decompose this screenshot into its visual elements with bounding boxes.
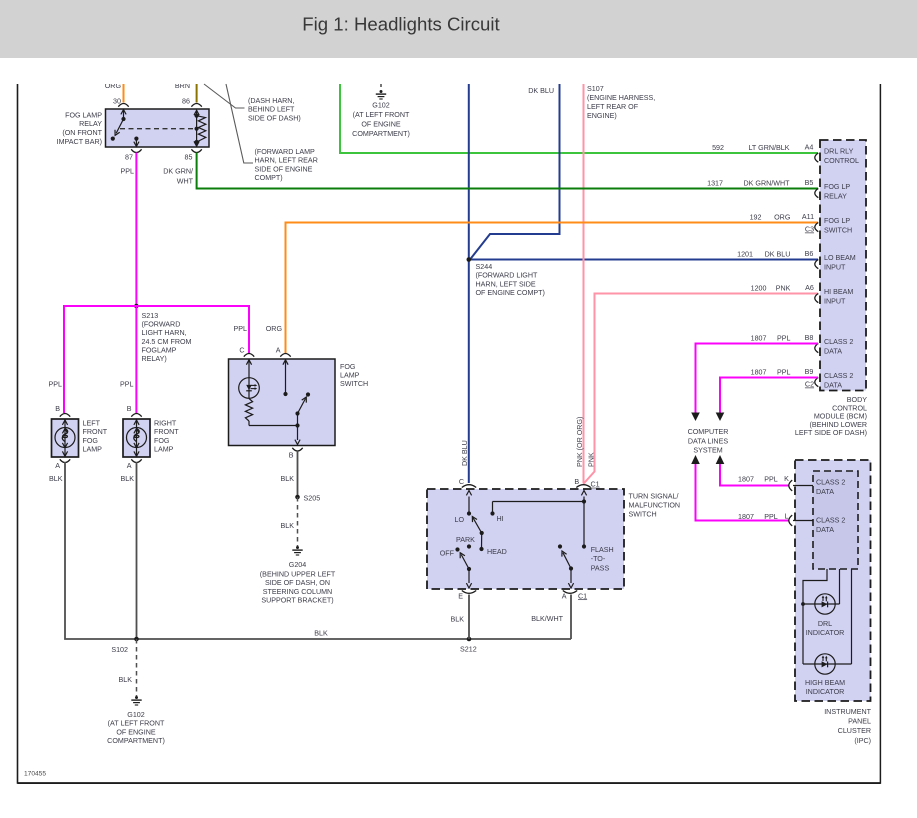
wire 192 ORG from BCM A11 to fog lamp switch pin A bbox=[286, 223, 819, 354]
svg-text:(BEHIND UPPER LEFT: (BEHIND UPPER LEFT bbox=[260, 571, 336, 579]
relay armature dashed link bbox=[120, 128, 196, 130]
figure number 170455 bbox=[24, 771, 46, 778]
BCM LO BEAM INPUT label bbox=[824, 254, 856, 272]
svg-text:SUPPORT BRACKET): SUPPORT BRACKET) bbox=[261, 596, 333, 604]
BCM pin A4 bbox=[815, 153, 819, 162]
svg-text:FOGLAMP: FOGLAMP bbox=[142, 346, 177, 354]
svg-text:(BEHIND LOWER: (BEHIND LOWER bbox=[809, 421, 867, 429]
BCM pin A6 bbox=[815, 294, 819, 303]
svg-text:85: 85 bbox=[185, 154, 193, 162]
svg-text:DATA: DATA bbox=[816, 526, 834, 534]
BCM pin B6 bbox=[815, 260, 819, 269]
labels for wire 1807 B8 bbox=[751, 334, 814, 343]
label FOG LAMP SWITCH bbox=[340, 363, 368, 388]
svg-text:DK BLU: DK BLU bbox=[461, 440, 469, 466]
svg-text:HIGH BEAM: HIGH BEAM bbox=[805, 679, 845, 687]
svg-text:ORG: ORG bbox=[266, 325, 283, 333]
svg-text:PASS: PASS bbox=[591, 564, 610, 572]
HEAD contact bbox=[479, 547, 506, 556]
svg-text:HEAD: HEAD bbox=[487, 548, 507, 556]
svg-text:SIDE OF DASH, ON: SIDE OF DASH, ON bbox=[265, 579, 330, 587]
wire BLK dashed to ground G204 bbox=[297, 497, 299, 546]
left front fog lamp pin A bbox=[55, 459, 70, 470]
relay pin 86 bbox=[182, 98, 202, 107]
wire ORG into relay pin 30 bbox=[123, 84, 125, 103]
label PPL under pin 87 bbox=[121, 168, 135, 176]
label PPL at right fog lamp bbox=[120, 381, 134, 389]
svg-text:G102: G102 bbox=[372, 102, 389, 110]
svg-text:A11: A11 bbox=[802, 213, 814, 221]
svg-text:1807: 1807 bbox=[738, 513, 754, 521]
wire BRN into relay pin 86 bbox=[196, 84, 198, 103]
switch lamp resistor bbox=[245, 399, 252, 426]
svg-text:IMPACT BAR): IMPACT BAR) bbox=[57, 138, 102, 146]
label RIGHT FRONT FOG LAMP bbox=[154, 420, 179, 454]
relay pin 87 bbox=[125, 149, 142, 161]
svg-text:BLK: BLK bbox=[49, 475, 63, 483]
svg-text:CLASS 2: CLASS 2 bbox=[824, 372, 853, 380]
HI contact bbox=[490, 502, 584, 524]
svg-text:C3: C3 bbox=[805, 226, 814, 234]
svg-text:STEERING COLUMN: STEERING COLUMN bbox=[263, 588, 332, 596]
svg-text:MODULE (BCM): MODULE (BCM) bbox=[814, 413, 867, 421]
svg-text:S205: S205 bbox=[304, 495, 321, 503]
svg-text:LAMP: LAMP bbox=[83, 446, 103, 454]
svg-text:BLK: BLK bbox=[121, 475, 135, 483]
label PPL at left fog lamp bbox=[49, 381, 63, 389]
note (DASH HARN, BEHIND LEFT SIDE OF DASH) bbox=[248, 97, 301, 122]
headlight switch LO contact bbox=[454, 491, 471, 525]
ground G102 (top) bbox=[376, 84, 386, 99]
svg-text:PPL: PPL bbox=[777, 369, 791, 377]
svg-text:-TO-: -TO- bbox=[591, 555, 606, 563]
svg-text:OFF: OFF bbox=[440, 550, 455, 558]
BCM connector C2 label bbox=[805, 381, 814, 389]
wire PPL from relay pin 87 to splice S213 bbox=[135, 153, 137, 307]
svg-text:PPL: PPL bbox=[234, 325, 248, 333]
headlight switch blade bbox=[472, 517, 484, 550]
svg-text:INPUT: INPUT bbox=[824, 298, 846, 306]
svg-text:FOG: FOG bbox=[83, 437, 99, 445]
svg-text:L: L bbox=[785, 513, 789, 521]
svg-text:C: C bbox=[239, 346, 244, 354]
label PPL at pin C bbox=[234, 325, 248, 333]
svg-text:LEFT REAR OF: LEFT REAR OF bbox=[587, 103, 639, 111]
svg-text:COMPT): COMPT) bbox=[255, 174, 283, 182]
svg-text:1317: 1317 bbox=[707, 180, 723, 188]
svg-text:OF ENGINE: OF ENGINE bbox=[361, 121, 401, 129]
label HIGH BEAM INDICATOR bbox=[805, 679, 845, 696]
title bar bbox=[0, 0, 917, 58]
svg-text:FRONT: FRONT bbox=[154, 428, 179, 436]
wire 592 LT GRN/BLK to BCM A4 bbox=[340, 84, 818, 153]
svg-text:S213: S213 bbox=[142, 312, 159, 320]
svg-text:PARK: PARK bbox=[456, 536, 475, 544]
off-page arrow up K bbox=[716, 455, 725, 464]
svg-text:LO: LO bbox=[454, 516, 464, 524]
svg-text:CLASS 2: CLASS 2 bbox=[824, 338, 853, 346]
wire 1317 DK GRN/WHT from relay pin 85 to BCM B5 bbox=[197, 153, 818, 189]
left front fog lamp bbox=[52, 419, 79, 457]
svg-text:BLK: BLK bbox=[119, 676, 133, 684]
svg-text:592: 592 bbox=[712, 144, 724, 152]
svg-text:INDICATOR: INDICATOR bbox=[806, 629, 845, 637]
wire BLK from switch pin B bbox=[297, 451, 299, 497]
wire BLK dashed to ground G102 bbox=[136, 639, 138, 696]
svg-text:LEFT: LEFT bbox=[83, 420, 101, 428]
splice S244 bbox=[467, 257, 472, 262]
splice S205 bbox=[295, 495, 320, 503]
labels for wire 192 bbox=[750, 213, 815, 222]
svg-text:PANEL: PANEL bbox=[848, 718, 871, 726]
svg-text:INDICATOR: INDICATOR bbox=[806, 688, 845, 696]
svg-text:SIDE OF ENGINE: SIDE OF ENGINE bbox=[255, 165, 313, 173]
leader line to dash harness note bbox=[204, 84, 245, 108]
svg-text:G204: G204 bbox=[289, 561, 306, 569]
svg-text:LO BEAM: LO BEAM bbox=[824, 254, 856, 262]
svg-text:SWITCH: SWITCH bbox=[340, 380, 368, 388]
svg-text:1807: 1807 bbox=[751, 369, 767, 377]
wire BLK from left fog lamp to rail bbox=[65, 462, 571, 639]
svg-text:(ENGINE HARNESS,: (ENGINE HARNESS, bbox=[587, 94, 655, 102]
label LEFT FRONT FOG LAMP bbox=[83, 420, 108, 454]
svg-text:B: B bbox=[574, 478, 579, 486]
BCM pin B8 bbox=[815, 344, 819, 353]
labels for wire 1807 K bbox=[738, 475, 789, 484]
svg-text:SIDE OF DASH): SIDE OF DASH) bbox=[248, 114, 301, 122]
IPC CLASS 2 DATA label (L) bbox=[816, 517, 845, 535]
switch pin C bbox=[459, 478, 476, 488]
PARK contact bbox=[456, 536, 475, 549]
svg-text:OF ENGINE COMPT): OF ENGINE COMPT) bbox=[476, 289, 545, 297]
rotated label PNK bbox=[588, 452, 596, 467]
BCM connector C3 label bbox=[805, 226, 814, 234]
svg-text:RELAY): RELAY) bbox=[142, 355, 167, 363]
wire DK BLU branch from top into splice S244 bbox=[470, 84, 560, 260]
splice S213 bbox=[134, 304, 139, 309]
svg-text:CLASS 2: CLASS 2 bbox=[816, 517, 845, 525]
svg-text:WHT: WHT bbox=[177, 177, 194, 185]
svg-text:SWITCH: SWITCH bbox=[824, 227, 852, 235]
BCM CLASS 2 DATA label bbox=[824, 338, 853, 356]
relay switch contact from pin 30 bbox=[111, 110, 126, 141]
svg-text:BLK: BLK bbox=[451, 616, 465, 624]
DRL indicator LED bbox=[803, 594, 840, 614]
svg-text:170455: 170455 bbox=[24, 771, 46, 778]
switch output to pin E bbox=[466, 569, 471, 588]
svg-text:RELAY: RELAY bbox=[79, 120, 102, 128]
svg-text:C2: C2 bbox=[805, 381, 814, 389]
svg-text:(FORWARD LIGHT: (FORWARD LIGHT bbox=[476, 272, 539, 280]
svg-text:S212: S212 bbox=[460, 646, 477, 654]
label FOG LAMP RELAY (ON FRONT IMPACT BAR) bbox=[57, 111, 103, 146]
svg-text:86: 86 bbox=[182, 98, 190, 106]
svg-text:S107: S107 bbox=[587, 85, 604, 93]
IPC pin K bbox=[789, 480, 813, 491]
switch pin A contact bbox=[283, 360, 288, 396]
fog lamp switch box bbox=[229, 359, 336, 446]
svg-text:BODY: BODY bbox=[847, 396, 867, 404]
svg-text:FOG LAMP: FOG LAMP bbox=[65, 111, 102, 119]
svg-text:HI: HI bbox=[497, 515, 504, 523]
wire 1200 PNK from BCM A6 to switch pin B bbox=[583, 294, 818, 485]
svg-text:(AT LEFT FRONT: (AT LEFT FRONT bbox=[108, 720, 165, 728]
label TURN SIGNAL/ MALFUNCTION SWITCH bbox=[629, 493, 681, 519]
svg-text:LAMP: LAMP bbox=[340, 372, 360, 380]
left front fog lamp pin B bbox=[55, 405, 70, 417]
switch output to pin A bbox=[568, 569, 573, 589]
leader line to forward lamp harness note bbox=[226, 84, 253, 163]
dimmer blade to OFF bbox=[460, 553, 471, 571]
svg-text:B: B bbox=[289, 452, 294, 460]
label G102 (AT LEFT FRONT OF ENGINE COMPARTMENT) bbox=[107, 711, 165, 745]
BCM CLASS 2 DATA label bbox=[824, 372, 853, 390]
label S244 (FORWARD LIGHT HARN, LEFT SIDE OF ENGINE COMPT) bbox=[476, 263, 545, 297]
switch pin B / C1 bbox=[574, 478, 599, 489]
label BLK/WHT bbox=[531, 615, 563, 623]
svg-text:1200: 1200 bbox=[751, 285, 767, 293]
svg-text:SWITCH: SWITCH bbox=[629, 511, 657, 519]
IPC internal wiring left rail bbox=[801, 569, 827, 664]
relay pin 87 contact bbox=[134, 137, 139, 147]
instrument panel cluster (IPC) box bbox=[795, 460, 871, 701]
wire 1201 DK BLU to BCM B6 bbox=[469, 259, 818, 261]
labels for wire 1201 bbox=[737, 250, 813, 259]
label COMPUTER DATA LINES SYSTEM bbox=[688, 428, 729, 455]
svg-text:FOG LP: FOG LP bbox=[824, 217, 850, 225]
label G102 (AT LEFT FRONT OF ENGINE COMPARTMENT) bbox=[352, 102, 410, 139]
label BODY CONTROL MODULE (BCM) (BEHIND LOWER LEFT SIDE OF DASH) bbox=[795, 396, 867, 437]
svg-text:1807: 1807 bbox=[751, 335, 767, 343]
svg-text:DATA LINES: DATA LINES bbox=[688, 438, 728, 446]
label DK BLU bbox=[528, 87, 554, 95]
fog lamp relay box bbox=[106, 109, 210, 147]
flash-to-pass blade bbox=[562, 551, 573, 571]
svg-text:B9: B9 bbox=[805, 368, 814, 376]
svg-text:BEHIND LEFT: BEHIND LEFT bbox=[248, 106, 295, 114]
svg-text:B8: B8 bbox=[805, 334, 814, 342]
svg-text:(DASH HARN,: (DASH HARN, bbox=[248, 97, 294, 105]
svg-text:DK BLU: DK BLU bbox=[528, 87, 554, 95]
svg-text:PPL: PPL bbox=[49, 381, 63, 389]
svg-text:G102: G102 bbox=[127, 711, 144, 719]
svg-text:B5: B5 bbox=[805, 179, 814, 187]
svg-text:PNK: PNK bbox=[776, 285, 791, 293]
label S213 (FORWARD LIGHT HARN, 24.5 CM FROM FOGLAMP RELAY) bbox=[142, 312, 192, 363]
rotated label PNK (OR ORG) bbox=[576, 417, 584, 467]
OFF contact bbox=[440, 547, 460, 557]
svg-text:C1: C1 bbox=[591, 481, 600, 489]
svg-text:LT GRN/BLK: LT GRN/BLK bbox=[748, 144, 789, 152]
svg-text:LIGHT HARN,: LIGHT HARN, bbox=[142, 329, 187, 337]
svg-text:DRL RLY: DRL RLY bbox=[824, 148, 854, 156]
BCM DRL RLY CONTROL label bbox=[824, 148, 859, 166]
turn signal / malfunction switch box bbox=[427, 489, 624, 589]
label BLK on rail bbox=[314, 630, 328, 638]
svg-text:BLK/WHT: BLK/WHT bbox=[531, 615, 563, 623]
label DK GRN/WHT under pin 85 bbox=[163, 168, 193, 186]
relay coil bbox=[194, 110, 206, 146]
ground G102 (bottom) bbox=[131, 696, 141, 705]
svg-text:PPL: PPL bbox=[120, 381, 134, 389]
svg-text:FOG: FOG bbox=[340, 363, 356, 371]
switch pin C bbox=[239, 346, 254, 356]
BCM FOG LP RELAY label bbox=[824, 183, 850, 201]
svg-text:HARN, LEFT REAR: HARN, LEFT REAR bbox=[255, 157, 318, 165]
svg-text:K: K bbox=[784, 475, 789, 483]
svg-text:A4: A4 bbox=[805, 144, 814, 152]
svg-text:LAMP: LAMP bbox=[154, 446, 174, 454]
svg-text:B6: B6 bbox=[805, 250, 814, 258]
label INSTRUMENT PANEL CLUSTER (IPC) bbox=[824, 708, 871, 745]
BCM HI BEAM INPUT label bbox=[824, 288, 853, 306]
svg-text:A: A bbox=[276, 346, 281, 354]
wire 1807 PPL to IPC pin L bbox=[696, 464, 789, 521]
off-page arrow down B8 bbox=[691, 413, 700, 422]
labels for wire 1807 B9 bbox=[751, 368, 814, 377]
svg-text:DATA: DATA bbox=[816, 488, 834, 496]
switch indicator lamp bbox=[239, 360, 260, 399]
switch output to pin B bbox=[295, 414, 300, 445]
label FLASH -TO- PASS bbox=[591, 546, 614, 572]
svg-text:DK GRN/: DK GRN/ bbox=[163, 168, 193, 176]
svg-text:DATA: DATA bbox=[824, 348, 842, 356]
svg-text:ORG: ORG bbox=[774, 214, 791, 222]
IPC pin L bbox=[789, 515, 813, 526]
svg-text:(FORWARD: (FORWARD bbox=[142, 321, 181, 329]
svg-text:BLK: BLK bbox=[314, 630, 328, 638]
svg-text:RELAY: RELAY bbox=[824, 193, 847, 201]
labels for wire 592 bbox=[712, 144, 813, 153]
svg-text:COMPARTMENT): COMPARTMENT) bbox=[107, 737, 165, 745]
wire PNK (OR ORG) from S107 to switch pin B bbox=[583, 84, 585, 483]
svg-text:(ON FRONT: (ON FRONT bbox=[62, 129, 102, 137]
BCM pin A11 bbox=[815, 223, 819, 232]
wire PPL splice rail bbox=[64, 306, 249, 413]
svg-text:A6: A6 bbox=[805, 284, 814, 292]
svg-text:MALFUNCTION: MALFUNCTION bbox=[629, 502, 681, 510]
svg-text:COMPUTER: COMPUTER bbox=[688, 428, 729, 436]
wire 1807 PPL from BCM B9 bbox=[720, 378, 818, 413]
label ORG (clipped at viewport top) bbox=[105, 82, 122, 90]
svg-text:DRL: DRL bbox=[818, 620, 832, 628]
svg-text:(FORWARD LAMP: (FORWARD LAMP bbox=[255, 148, 316, 156]
svg-text:BLK: BLK bbox=[281, 475, 295, 483]
svg-text:INPUT: INPUT bbox=[824, 264, 846, 272]
label S107 (ENGINE HARNESS, LEFT REAR OF ENGINE) bbox=[587, 85, 655, 120]
label BLK bbox=[451, 616, 465, 624]
HIGH BEAM indicator right lead bbox=[851, 569, 853, 664]
svg-text:DATA: DATA bbox=[824, 382, 842, 390]
svg-text:Fig 1: Headlights Circuit: Fig 1: Headlights Circuit bbox=[302, 14, 500, 35]
svg-text:PPL: PPL bbox=[764, 513, 778, 521]
svg-text:HARN, LEFT SIDE: HARN, LEFT SIDE bbox=[476, 280, 536, 288]
splice S102 bbox=[111, 637, 138, 654]
junction to pin B bbox=[581, 491, 586, 549]
svg-text:30: 30 bbox=[113, 98, 121, 106]
label BLK at right fog lamp bbox=[121, 475, 135, 483]
svg-text:(IPC): (IPC) bbox=[854, 737, 871, 745]
body control module (BCM) box bbox=[820, 140, 866, 391]
svg-text:OF ENGINE: OF ENGINE bbox=[116, 728, 156, 736]
svg-text:TURN SIGNAL/: TURN SIGNAL/ bbox=[629, 493, 679, 501]
BCM pin B9 bbox=[815, 378, 819, 387]
svg-text:CLASS 2: CLASS 2 bbox=[816, 479, 845, 487]
label BRN (clipped at viewport top) bbox=[175, 82, 190, 90]
label BLK at left fog lamp bbox=[49, 475, 63, 483]
wire 1807 PPL to IPC pin K bbox=[720, 464, 789, 486]
right front fog lamp bbox=[123, 419, 150, 457]
svg-text:(AT LEFT FRONT: (AT LEFT FRONT bbox=[353, 111, 410, 119]
wire DK BLU vertical to turn signal switch pin C bbox=[468, 84, 470, 483]
svg-text:ENGINE): ENGINE) bbox=[587, 112, 617, 120]
switch pin E bbox=[458, 591, 476, 601]
relay pin 30 bbox=[113, 98, 129, 107]
label BLK bbox=[119, 676, 133, 684]
IPC inner module box bbox=[813, 471, 858, 569]
svg-text:FOG LP: FOG LP bbox=[824, 183, 850, 191]
BCM pin B5 bbox=[815, 189, 819, 198]
wire 1807 PPL from BCM B8 bbox=[696, 344, 819, 413]
svg-text:DK BLU: DK BLU bbox=[765, 251, 791, 259]
svg-text:SYSTEM: SYSTEM bbox=[693, 447, 722, 455]
HIGH BEAM indicator LED bbox=[803, 654, 852, 674]
label BLK bbox=[281, 475, 295, 483]
svg-text:A: A bbox=[55, 462, 60, 470]
label G204 (BEHIND UPPER LEFT SIDE OF DASH, ON STEERING COLUMN SUPPORT BRACKET) bbox=[260, 561, 336, 604]
svg-text:PPL: PPL bbox=[764, 476, 778, 484]
svg-text:CONTROL: CONTROL bbox=[824, 157, 859, 165]
svg-text:CONTROL: CONTROL bbox=[832, 404, 867, 412]
svg-text:PNK: PNK bbox=[588, 452, 596, 467]
svg-text:B: B bbox=[127, 405, 132, 413]
svg-text:S102: S102 bbox=[111, 646, 128, 654]
off-page arrow down B9 bbox=[716, 413, 725, 422]
off-page arrow up L bbox=[691, 455, 700, 464]
svg-text:E: E bbox=[458, 592, 463, 600]
svg-text:87: 87 bbox=[125, 154, 133, 162]
wire PPL to right fog lamp bbox=[135, 306, 137, 413]
labels for wire 1807 L bbox=[738, 513, 788, 522]
svg-text:PPL: PPL bbox=[777, 335, 791, 343]
switch pin B bbox=[289, 448, 303, 460]
labels for wire 1200 bbox=[751, 284, 814, 293]
svg-text:PPL: PPL bbox=[121, 168, 135, 176]
switch blade bbox=[295, 392, 310, 415]
svg-text:S244: S244 bbox=[476, 263, 493, 271]
splice S212 bbox=[460, 637, 477, 654]
svg-text:FOG: FOG bbox=[154, 437, 170, 445]
switch pin A bbox=[276, 346, 291, 356]
svg-text:DK GRN/WHT: DK GRN/WHT bbox=[743, 180, 790, 188]
ground G204 bbox=[292, 546, 302, 555]
svg-text:1201: 1201 bbox=[737, 251, 753, 259]
svg-text:FLASH: FLASH bbox=[591, 546, 614, 554]
svg-text:PNK (OR ORG): PNK (OR ORG) bbox=[576, 417, 584, 467]
svg-text:C: C bbox=[459, 478, 464, 486]
svg-text:CLUSTER: CLUSTER bbox=[838, 727, 871, 735]
svg-text:A: A bbox=[127, 462, 132, 470]
note (FORWARD LAMP HARN, LEFT REAR SIDE OF ENGINE COMPT) bbox=[255, 148, 318, 182]
DRL indicator right lead bbox=[839, 569, 841, 604]
switch pin A / C1 bbox=[562, 591, 587, 601]
svg-text:FRONT: FRONT bbox=[83, 428, 108, 436]
svg-text:1807: 1807 bbox=[738, 476, 754, 484]
BCM FOG LP SWITCH label bbox=[824, 217, 852, 235]
svg-text:COMPARTMENT): COMPARTMENT) bbox=[352, 130, 410, 138]
labels for wire 1317 bbox=[707, 179, 813, 188]
switch internal wire to pin B bbox=[249, 423, 300, 427]
